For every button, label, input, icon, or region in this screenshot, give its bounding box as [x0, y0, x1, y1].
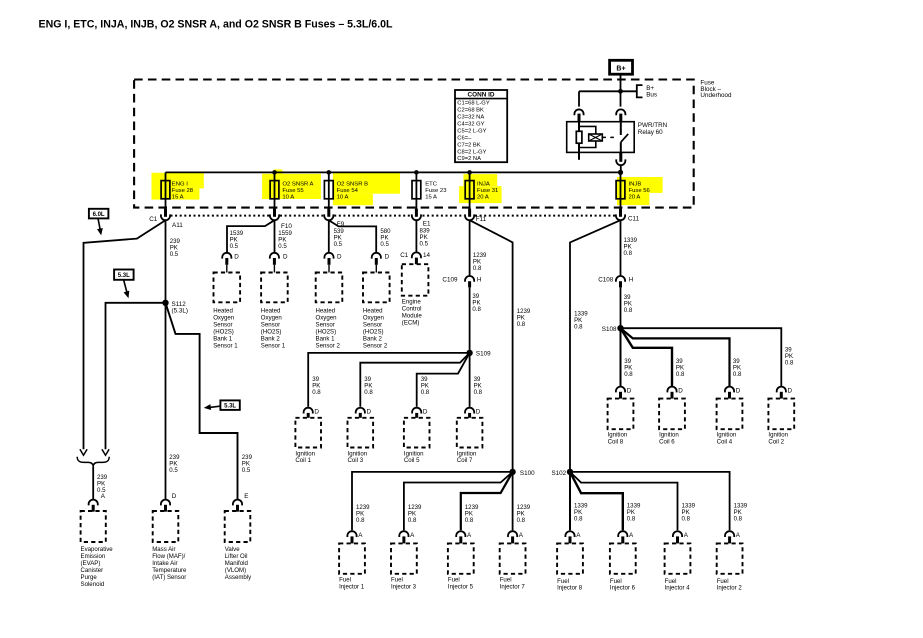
- component VLOM assembly: [225, 511, 251, 542]
- callout 6.0L: [89, 209, 109, 219]
- svg-text:Sensor 1: Sensor 1: [213, 342, 238, 349]
- wire A11 main down 239 PK: [165, 220, 167, 499]
- connector fuse block output C11: [619, 209, 622, 217]
- svg-text:Bank 1: Bank 1: [213, 335, 233, 342]
- component HO2S B2S1: [261, 273, 288, 303]
- svg-text:Coil 3: Coil 3: [348, 457, 364, 464]
- connector HO2S B2S2: [372, 253, 381, 259]
- svg-text:Evaporative: Evaporative: [81, 546, 114, 553]
- wire bus to fuse INJA: [469, 172, 471, 209]
- svg-text:D: D: [423, 408, 428, 415]
- svg-text:Heated: Heated: [363, 307, 383, 314]
- component fuel injector 2: [725, 531, 734, 537]
- svg-text:5.3L: 5.3L: [224, 404, 236, 410]
- wire fuse supply bus: [166, 171, 621, 173]
- svg-text:Bank 2: Bank 2: [261, 335, 281, 342]
- component HO2S B1S2: [316, 273, 343, 303]
- node bus tap ETC: [414, 170, 419, 175]
- wire F11 down 1239 PK to C109: [469, 220, 471, 276]
- svg-text:A: A: [576, 532, 581, 539]
- wire C108 to S108 39 PK: [620, 287, 622, 328]
- component HO2S B1S1: [214, 273, 241, 303]
- svg-text:INJA: INJA: [477, 182, 490, 188]
- svg-text:Control: Control: [402, 305, 422, 312]
- wire C11 branch to S102 1339 PK: [570, 220, 621, 472]
- component EVAP solenoid: [81, 511, 106, 542]
- connector MAF/IAT sensor: [161, 500, 170, 506]
- svg-text:Intake Air: Intake Air: [152, 560, 177, 567]
- svg-text:0.8: 0.8: [624, 250, 633, 257]
- svg-text:0.8: 0.8: [734, 516, 743, 523]
- svg-text:D: D: [385, 253, 390, 260]
- connector relay output: [616, 159, 625, 165]
- svg-text:Mass Air: Mass Air: [152, 546, 175, 553]
- fuse O2 SNSR B Fuse 54: [324, 181, 333, 199]
- relay coil pin conductor: [578, 122, 580, 160]
- svg-text:A11: A11: [172, 222, 183, 229]
- svg-text:D: D: [283, 253, 288, 260]
- svg-text:C1: C1: [149, 216, 158, 223]
- svg-text:Sensor: Sensor: [363, 321, 382, 328]
- relay mechanical link dashes: [602, 136, 615, 138]
- svg-text:H: H: [477, 276, 482, 283]
- component ignition coil 5: [412, 408, 421, 414]
- relay output pin: [619, 152, 622, 161]
- wire B+ down to bus junction: [620, 74, 622, 91]
- svg-text:F11: F11: [476, 216, 487, 223]
- svg-text:Sensor 2: Sensor 2: [363, 342, 388, 349]
- connector fuse block output F10: [273, 209, 276, 217]
- wire S100 to fuel injector 7: [512, 472, 514, 530]
- svg-text:C8=2 L-GY: C8=2 L-GY: [457, 149, 486, 155]
- relay coil loop: [579, 126, 596, 147]
- svg-text:Coil 1: Coil 1: [295, 457, 311, 464]
- svg-text:D: D: [367, 408, 372, 415]
- svg-text:C3=32 NA: C3=32 NA: [457, 115, 484, 121]
- node bus tap INJA: [467, 170, 472, 175]
- svg-text:Oxygen: Oxygen: [261, 314, 282, 321]
- svg-text:Fuse 31: Fuse 31: [477, 188, 498, 194]
- svg-text:D: D: [678, 387, 683, 394]
- svg-text:0.8: 0.8: [356, 517, 365, 524]
- svg-text:Emission: Emission: [81, 553, 106, 560]
- svg-text:D: D: [476, 408, 481, 415]
- connector fuse block output F11: [468, 209, 471, 217]
- svg-text:Sensor: Sensor: [213, 321, 232, 328]
- svg-text:C2=68 BK: C2=68 BK: [457, 108, 484, 114]
- wire S100 to fuel injector 5: [461, 472, 513, 530]
- svg-text:Coil 5: Coil 5: [404, 457, 420, 464]
- svg-text:Manifold: Manifold: [225, 560, 248, 567]
- svg-text:S102: S102: [551, 470, 566, 477]
- svg-text:0.8: 0.8: [474, 389, 483, 396]
- svg-text:0.5: 0.5: [242, 467, 251, 474]
- wire C109 to S109 39 PK: [469, 287, 471, 353]
- svg-text:Sensor: Sensor: [316, 321, 335, 328]
- connector relay pin right (switch): [616, 109, 625, 115]
- svg-text:Relay 60: Relay 60: [638, 129, 663, 136]
- svg-text:(HO2S): (HO2S): [261, 328, 282, 335]
- svg-text:(IAT) Sensor: (IAT) Sensor: [152, 574, 186, 581]
- svg-text:Injector 6: Injector 6: [610, 585, 636, 592]
- svg-text:D: D: [788, 387, 793, 394]
- svg-text:Coil 4: Coil 4: [717, 438, 733, 445]
- svg-text:Injector 3: Injector 3: [391, 583, 417, 590]
- component ignition coil 1: [304, 408, 313, 414]
- svg-text:15 A: 15 A: [425, 195, 437, 201]
- svg-text:Sensor 1: Sensor 1: [261, 342, 286, 349]
- splice S100: [509, 469, 515, 475]
- wire S108 to ignition coil 4: [621, 328, 730, 386]
- svg-text:D: D: [337, 253, 342, 260]
- wire S109 to ignition coil 3: [360, 353, 469, 407]
- B+ bus bracket symbol: [637, 85, 643, 97]
- wire merged 239 PK to EVAP: [92, 467, 94, 499]
- svg-text:CONN ID: CONN ID: [468, 92, 495, 99]
- component engine control module ECM: [402, 264, 429, 296]
- component MAF/IAT sensor: [153, 511, 179, 542]
- svg-text:0.8: 0.8: [624, 307, 633, 314]
- component ignition coil 3: [356, 408, 365, 414]
- svg-text:Lifter Oil: Lifter Oil: [225, 553, 248, 560]
- svg-text:Module: Module: [402, 312, 423, 319]
- svg-text:Fuse 28: Fuse 28: [172, 188, 194, 194]
- svg-text:Injector 2: Injector 2: [717, 585, 743, 592]
- svg-text:Fuse 23: Fuse 23: [425, 188, 447, 194]
- svg-text:C1=68 L-GY: C1=68 L-GY: [457, 101, 490, 107]
- splice S108: [617, 325, 623, 331]
- svg-text:0.8: 0.8: [517, 321, 526, 328]
- svg-text:C108: C108: [598, 276, 614, 283]
- component fuel injector 3: [399, 531, 408, 537]
- svg-text:D: D: [234, 253, 239, 260]
- svg-text:Bank 2: Bank 2: [363, 335, 383, 342]
- svg-text:Underhood: Underhood: [700, 92, 732, 99]
- wire S108 to ignition coil 8: [620, 328, 622, 386]
- merge arrows into splice brace (EVAP feed): [80, 449, 87, 455]
- svg-text:0.8: 0.8: [676, 371, 685, 378]
- wire F10 left branch 1539 PK: [227, 220, 275, 252]
- svg-text:Coil 6: Coil 6: [659, 438, 675, 445]
- svg-text:14: 14: [423, 252, 431, 259]
- callout 5.3L upper: [114, 270, 134, 280]
- svg-text:C109: C109: [442, 276, 458, 283]
- svg-text:INJB: INJB: [629, 182, 642, 188]
- component ignition coil 8: [616, 387, 625, 393]
- svg-text:0.8: 0.8: [733, 371, 742, 378]
- svg-text:Solenoid: Solenoid: [81, 581, 105, 588]
- component HO2S B2S2: [363, 273, 390, 303]
- fuse INJB Fuse 56: [616, 181, 625, 199]
- svg-text:Canister: Canister: [81, 567, 104, 574]
- svg-text:10 A: 10 A: [282, 195, 294, 201]
- connector HO2S B2S1: [270, 253, 279, 259]
- node relay feed junction: [618, 89, 623, 94]
- wire bus to fuse INJB: [620, 172, 622, 209]
- highlight O2 SNSR B fuse: [333, 172, 400, 194]
- svg-text:0.8: 0.8: [364, 389, 373, 396]
- wire S108 to ignition coil 2: [621, 328, 782, 386]
- component ignition coil 6: [667, 387, 676, 393]
- wire F9 right branch 580 PK: [329, 220, 376, 252]
- svg-text:Flow (MAF)/: Flow (MAF)/: [152, 553, 185, 560]
- svg-text:(HO2S): (HO2S): [316, 328, 337, 335]
- svg-text:0.8: 0.8: [473, 265, 482, 272]
- svg-text:0.8: 0.8: [465, 517, 474, 524]
- svg-text:Coil 7: Coil 7: [457, 457, 473, 464]
- svg-text:Injector 4: Injector 4: [665, 585, 691, 592]
- wire bus to fuse O2 SNSR B: [328, 172, 330, 209]
- svg-text:Sensor: Sensor: [261, 321, 280, 328]
- relay PWR/TRN Relay 60 box: [567, 122, 635, 153]
- svg-text:Fuse 56: Fuse 56: [629, 188, 651, 194]
- svg-text:0.8: 0.8: [574, 516, 583, 523]
- svg-text:C7=2 BK: C7=2 BK: [457, 142, 480, 148]
- svg-text:ENG I: ENG I: [172, 182, 188, 188]
- wire S109 to ignition coil 1: [308, 353, 469, 407]
- svg-text:C11: C11: [628, 216, 640, 223]
- svg-text:6.0L: 6.0L: [93, 212, 105, 218]
- connector fuse block output E1: [415, 209, 418, 217]
- svg-text:Coil 8: Coil 8: [608, 438, 624, 445]
- wire S102 to fuel injector 8: [569, 472, 571, 530]
- fuse INJA Fuse 31: [465, 181, 474, 199]
- svg-text:A: A: [629, 532, 634, 539]
- svg-text:Fuse 54: Fuse 54: [337, 188, 359, 194]
- CONN ID table box: [455, 90, 507, 162]
- wire relay output to fuse bus: [620, 165, 622, 172]
- svg-text:0.8: 0.8: [408, 517, 417, 524]
- svg-text:A: A: [684, 532, 689, 539]
- component ignition coil 4: [725, 387, 734, 393]
- svg-text:Oxygen: Oxygen: [213, 314, 234, 321]
- wire S109 to ignition coil 7: [469, 353, 471, 407]
- svg-text:0.5: 0.5: [420, 240, 429, 247]
- svg-text:Injector 8: Injector 8: [557, 585, 583, 592]
- wire A11 to 6.0L branch diagonal: [84, 220, 166, 449]
- B+ source box: [610, 60, 633, 74]
- node bus tap O2B: [327, 170, 332, 175]
- svg-text:D: D: [172, 493, 177, 500]
- svg-text:Injector 7: Injector 7: [500, 583, 526, 590]
- svg-text:S100: S100: [520, 470, 535, 477]
- svg-text:A: A: [736, 532, 741, 539]
- fuse O2 SNSR A Fuse 55: [270, 181, 279, 199]
- fuse ETC Fuse 23: [412, 181, 421, 199]
- svg-text:B+: B+: [616, 66, 625, 73]
- node fuse bus / relay output junction: [618, 170, 623, 175]
- splice S112: [162, 300, 168, 306]
- svg-text:0.5: 0.5: [334, 241, 343, 248]
- relay switch pin bottom: [620, 142, 622, 152]
- svg-text:D: D: [627, 387, 632, 394]
- svg-text:C4=32 GY: C4=32 GY: [457, 121, 484, 127]
- component fuel injector 7: [508, 531, 517, 537]
- svg-text:Sensor 2: Sensor 2: [316, 342, 341, 349]
- wire F10 down branch 1559 PK: [274, 220, 276, 252]
- svg-text:20 A: 20 A: [477, 195, 489, 201]
- svg-text:F10: F10: [281, 223, 292, 230]
- component fuel injector 4: [673, 531, 682, 537]
- svg-text:C1: C1: [400, 252, 409, 259]
- svg-text:E: E: [244, 493, 248, 500]
- svg-text:(EVAP): (EVAP): [81, 560, 101, 567]
- svg-text:5.3L: 5.3L: [118, 273, 130, 279]
- svg-text:H: H: [629, 276, 634, 283]
- highlight O2 SNSR A fuse: [262, 174, 321, 199]
- svg-text:Valve: Valve: [225, 546, 240, 553]
- svg-text:A: A: [410, 532, 415, 539]
- svg-text:O2 SNSR A: O2 SNSR A: [282, 182, 313, 188]
- svg-text:10 A: 10 A: [337, 195, 349, 201]
- component fuel injector 5: [456, 531, 465, 537]
- svg-text:(5.3L): (5.3L): [172, 308, 188, 315]
- wire S102 to fuel injector 6: [570, 472, 623, 530]
- svg-text:0.5: 0.5: [230, 243, 239, 250]
- relay switch pin top: [620, 122, 622, 135]
- svg-text:0.8: 0.8: [312, 389, 321, 396]
- svg-text:Heated: Heated: [261, 307, 281, 314]
- svg-text:Oxygen: Oxygen: [363, 314, 384, 321]
- connector fuse block output F9: [327, 209, 330, 217]
- svg-text:Assembly: Assembly: [225, 574, 252, 581]
- highlight ENG I fuse: [152, 173, 204, 189]
- svg-text:S108: S108: [602, 326, 617, 333]
- svg-text:D: D: [314, 408, 319, 415]
- component fuel injector 8: [565, 531, 574, 537]
- wire S112 right branch to VLOM: [166, 303, 238, 499]
- highlight INJB fuse: [617, 177, 663, 193]
- svg-text:Coil 2: Coil 2: [768, 438, 784, 445]
- splice S109: [466, 350, 472, 356]
- svg-text:0.8: 0.8: [472, 306, 481, 313]
- svg-text:0.8: 0.8: [627, 516, 636, 523]
- connector fuse block output A11: [164, 209, 167, 217]
- wire C11 down 1339 PK to C108: [620, 220, 622, 276]
- svg-text:Purge: Purge: [81, 574, 98, 581]
- svg-text:0.8: 0.8: [624, 371, 633, 378]
- svg-text:0.8: 0.8: [682, 516, 691, 523]
- wire S102 to fuel injector 2: [570, 472, 730, 530]
- wire bus to fuse ENG I: [165, 172, 167, 209]
- highlight INJA fuse: [463, 174, 497, 186]
- svg-text:Fuse 55: Fuse 55: [282, 188, 304, 194]
- svg-text:(ECM): (ECM): [402, 319, 420, 326]
- wire S100 to fuel injector 1: [352, 472, 513, 530]
- component fuel injector 6: [618, 531, 627, 537]
- relay coil winding box with X: [589, 134, 603, 141]
- wire bus to fuse O2 SNSR A: [274, 172, 276, 209]
- svg-text:A: A: [358, 532, 363, 539]
- fuse block underhood dashed outline: [134, 80, 694, 208]
- wire E1 to ECM 839 PK: [415, 220, 417, 252]
- dotted connector face line: [171, 215, 270, 217]
- svg-text:A: A: [519, 532, 524, 539]
- wire S100 to fuel injector 3: [404, 472, 513, 530]
- fuse ENG I Fuse 28: [161, 181, 170, 199]
- svg-text:Injector 1: Injector 1: [339, 583, 365, 590]
- svg-text:Engine: Engine: [402, 298, 422, 305]
- svg-text:Heated: Heated: [316, 307, 336, 314]
- svg-text:C5=2 L-GY: C5=2 L-GY: [457, 128, 486, 134]
- svg-text:20 A: 20 A: [629, 195, 641, 201]
- connector HO2S B1S1: [222, 253, 231, 259]
- svg-text:Injector 5: Injector 5: [448, 583, 474, 590]
- svg-text:S109: S109: [476, 351, 491, 358]
- svg-text:D: D: [736, 387, 741, 394]
- wire S108 to ignition coil 6: [621, 328, 673, 386]
- svg-text:15 A: 15 A: [172, 195, 184, 201]
- svg-text:(VLOM): (VLOM): [225, 567, 246, 574]
- svg-text:0.8: 0.8: [421, 389, 430, 396]
- svg-text:Oxygen: Oxygen: [316, 314, 337, 321]
- svg-text:Bank 1: Bank 1: [316, 335, 336, 342]
- svg-text:C9=2 NA: C9=2 NA: [457, 156, 481, 162]
- svg-text:0.5: 0.5: [170, 251, 179, 258]
- relay coil parallel resistor: [576, 131, 582, 143]
- svg-text:A: A: [467, 532, 472, 539]
- wire branch to B+ bus tap: [621, 90, 637, 92]
- svg-text:0.5: 0.5: [169, 467, 178, 474]
- component ignition coil 7: [465, 408, 474, 414]
- connector EVAP solenoid: [89, 500, 98, 506]
- relay switch blade: [621, 134, 628, 142]
- connector VLOM assembly: [233, 500, 242, 506]
- svg-text:0.5: 0.5: [380, 241, 389, 248]
- svg-text:0.8: 0.8: [785, 359, 794, 366]
- svg-text:Temperature: Temperature: [152, 567, 187, 574]
- connector HO2S B1S2: [324, 253, 333, 259]
- svg-text:0.8: 0.8: [517, 517, 526, 524]
- component fuel injector 1: [347, 531, 356, 537]
- svg-text:ENG I, ETC, INJA, INJB, O2 SNS: ENG I, ETC, INJA, INJB, O2 SNSR A, and O…: [39, 18, 394, 30]
- wire S102 to fuel injector 4: [570, 472, 678, 530]
- splice S102: [567, 469, 573, 475]
- svg-text:0.5: 0.5: [278, 243, 287, 250]
- wire branch to relay coil pin: [579, 90, 621, 92]
- svg-text:ETC: ETC: [425, 182, 438, 188]
- wire bus to fuse ETC: [415, 172, 417, 209]
- svg-text:Heated: Heated: [213, 307, 233, 314]
- wire F11 branch to S100 1239 PK: [470, 220, 513, 472]
- svg-text:C6=–: C6=–: [457, 135, 472, 141]
- wire F9 down branch 539 PK: [328, 220, 330, 252]
- svg-text:0.8: 0.8: [574, 323, 583, 330]
- connector relay pin left (coil): [574, 109, 583, 115]
- svg-text:Bus: Bus: [646, 92, 657, 99]
- callout 5.3L lower: [220, 400, 239, 410]
- wire S109 to ignition coil 5: [417, 353, 470, 407]
- wire S112 left branch to EVAP: [106, 303, 166, 450]
- svg-text:(HO2S): (HO2S): [363, 328, 384, 335]
- svg-text:(HO2S): (HO2S): [213, 328, 234, 335]
- component ignition coil 2: [777, 387, 786, 393]
- svg-text:O2 SNSR B: O2 SNSR B: [337, 182, 368, 188]
- node bus tap O2A: [272, 170, 277, 175]
